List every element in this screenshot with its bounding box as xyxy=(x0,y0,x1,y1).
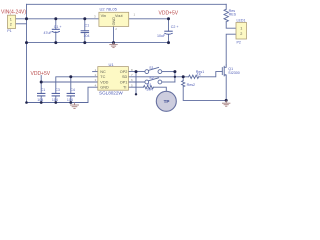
svg-text:2: 2 xyxy=(240,32,242,36)
svg-text:10K: 10K xyxy=(146,87,153,91)
svg-text:104: 104 xyxy=(67,98,73,102)
svg-text:C3: C3 xyxy=(55,88,60,92)
svg-text:Res2: Res2 xyxy=(187,83,195,87)
svg-text:P1: P1 xyxy=(7,29,11,33)
svg-text:S1: S1 xyxy=(149,66,153,70)
svg-text:P2: P2 xyxy=(237,41,241,45)
svg-text:104: 104 xyxy=(52,98,58,102)
svg-text:C2 +: C2 + xyxy=(171,25,179,29)
svg-text:R1: R1 xyxy=(147,83,152,87)
svg-text:VDD: VDD xyxy=(100,80,108,84)
svg-text:SGL8022W: SGL8022W xyxy=(99,91,123,96)
svg-text:VDD+5V: VDD+5V xyxy=(31,71,51,77)
svg-text:47uF: 47uF xyxy=(44,31,53,35)
svg-text:GND: GND xyxy=(112,17,116,26)
svg-text:C1: C1 xyxy=(41,88,46,92)
svg-text:TI: TI xyxy=(123,86,126,90)
svg-text:GND: GND xyxy=(100,86,109,90)
svg-text:1K: 1K xyxy=(197,72,202,76)
svg-text:SI2300: SI2300 xyxy=(228,71,239,75)
svg-text:C1: C1 xyxy=(85,23,90,27)
svg-text:2: 2 xyxy=(10,22,12,26)
svg-text:U1: U1 xyxy=(109,62,115,67)
svg-text:1: 1 xyxy=(240,26,242,30)
svg-text:104: 104 xyxy=(84,34,90,38)
svg-text:RES: RES xyxy=(229,12,237,16)
svg-text:TC: TC xyxy=(100,75,105,79)
svg-text:S2: S2 xyxy=(149,76,153,80)
svg-text:Vout: Vout xyxy=(115,14,124,18)
svg-text:LED1: LED1 xyxy=(237,19,246,23)
svg-text:OP2: OP2 xyxy=(120,70,128,74)
svg-text:U2 78L05: U2 78L05 xyxy=(100,6,118,11)
svg-text:C4: C4 xyxy=(70,88,75,92)
svg-text:1: 1 xyxy=(10,17,12,21)
svg-text:OP1: OP1 xyxy=(120,80,128,84)
svg-text:10uF: 10uF xyxy=(157,34,166,38)
svg-text:SD: SD xyxy=(122,75,128,79)
svg-text:VIN(4-24V): VIN(4-24V) xyxy=(1,9,26,15)
svg-text:Vin: Vin xyxy=(101,14,106,18)
svg-text:C1 +: C1 + xyxy=(54,25,62,29)
svg-text:VDD+5V: VDD+5V xyxy=(159,11,179,17)
svg-text:104: 104 xyxy=(37,98,43,102)
svg-text:NC: NC xyxy=(100,70,106,74)
svg-text:TP: TP xyxy=(164,99,170,104)
